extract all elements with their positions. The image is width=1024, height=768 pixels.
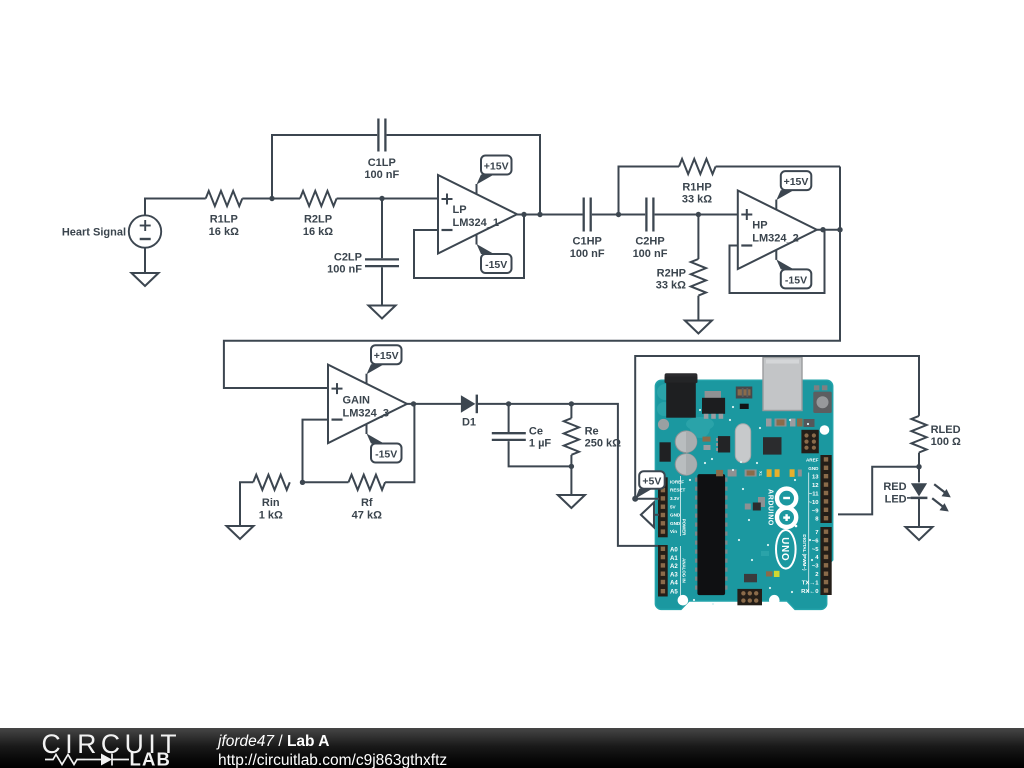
ARDUINO logo infinity — [777, 489, 797, 528]
footer title text — [218, 733, 329, 751]
inner pcb tint blobs — [658, 419, 669, 430]
node H — [569, 401, 574, 406]
electrolytic capacitors — [675, 431, 697, 453]
capacitor C2LP — [327, 199, 399, 306]
power flag +15V of U2 — [776, 171, 811, 210]
ground below Re — [558, 495, 585, 508]
node A — [269, 196, 274, 201]
svg-text:R2LP: R2LP — [304, 214, 332, 226]
voltage regulator — [705, 391, 721, 398]
resistor R1LP — [206, 191, 243, 238]
bottom mounting holes — [678, 595, 689, 606]
wire Arduino pin 8 to LED node — [838, 467, 919, 515]
svg-text:Rin: Rin — [262, 497, 280, 509]
QFP usb chip — [763, 437, 782, 454]
svg-text:-15V: -15V — [485, 259, 507, 271]
power flag -15V of U1 — [477, 234, 512, 273]
SOIC chip — [718, 436, 730, 452]
svg-text:GAIN: GAIN — [343, 395, 371, 407]
svg-text:47 kΩ: 47 kΩ — [352, 510, 382, 522]
wire node E to Rf — [303, 481, 349, 483]
capacitor C1LP — [364, 119, 399, 182]
node F — [411, 401, 416, 406]
ground below C2LP — [369, 306, 396, 319]
wire R1LP to node A — [242, 198, 300, 200]
power flag -15V of U2 — [776, 250, 811, 289]
wire GAIN output to D1 — [407, 403, 461, 405]
power flag -15V of U3 — [367, 424, 402, 463]
resistor R1HP — [679, 159, 716, 206]
reset button — [814, 385, 820, 390]
ground below Rin — [227, 526, 254, 539]
wire HP output long loop to GAIN + input — [224, 167, 840, 389]
LED emission arrows — [934, 484, 944, 492]
capacitor C2HP — [633, 198, 668, 260]
svg-text:HP: HP — [752, 220, 767, 232]
wire R1HP to HP output rail — [716, 166, 840, 168]
UNO oval logo — [776, 530, 796, 569]
wire C1LP to LP output vertical — [387, 135, 540, 215]
power flag +15V of U3 — [367, 345, 402, 384]
capacitor C1HP — [570, 198, 605, 260]
USB connector — [763, 357, 802, 410]
wire C1HP to C2HP — [592, 214, 645, 216]
svg-text:R1LP: R1LP — [210, 214, 238, 226]
DC power jack — [665, 373, 698, 383]
silkscreen labels left — [670, 479, 686, 534]
node LP out — [521, 212, 526, 217]
resonator — [736, 387, 753, 399]
wire node A up and across C1LP feedback — [272, 135, 377, 199]
svg-text:-15V: -15V — [375, 449, 397, 461]
left header ANALOG — [658, 545, 668, 597]
node LP out 2 — [537, 212, 542, 217]
svg-text:16 kΩ: 16 kΩ — [303, 226, 333, 238]
ON led — [774, 571, 780, 577]
svg-text:100 nF: 100 nF — [633, 248, 668, 260]
footer url text — [218, 752, 447, 768]
svg-text:100 nF: 100 nF — [327, 264, 362, 276]
resistor R2HP — [656, 215, 706, 321]
wire GAIN - input to node E — [303, 420, 329, 483]
LED D2 RED — [883, 481, 950, 527]
silkscreen separator lines — [680, 476, 682, 536]
ground below source — [132, 273, 159, 286]
svg-text:+15V: +15V — [784, 176, 809, 188]
power flag +5V — [632, 471, 665, 502]
svg-text:C2HP: C2HP — [635, 236, 664, 248]
right header digital top — [820, 455, 831, 523]
resistor R2LP — [300, 191, 337, 238]
tiny vias — [689, 406, 813, 605]
node I — [569, 464, 574, 469]
svg-text:+5V: +5V — [642, 476, 661, 488]
svg-text:LED: LED — [885, 494, 907, 506]
node HP out 2 — [837, 227, 842, 232]
silkscreen labels right — [806, 458, 819, 471]
ICSP2 header — [801, 430, 818, 454]
svg-text:C1HP: C1HP — [573, 236, 602, 248]
wire source bottom to ground — [144, 248, 146, 273]
wire Rf up to GAIN output — [385, 404, 414, 482]
small passives row — [745, 470, 757, 477]
op-amp U3 GAIN LM324_3 — [328, 365, 407, 444]
wire HP feedback loop — [730, 230, 825, 293]
wire node C up to R1HP — [619, 167, 680, 215]
wire +5V rail to RLED — [635, 356, 919, 499]
wire HP output — [817, 229, 840, 231]
svg-text:-15V: -15V — [785, 274, 807, 286]
crystal — [735, 424, 750, 463]
svg-text:RED: RED — [883, 481, 906, 493]
wire D1 to Ce Re and right — [478, 404, 658, 546]
ICSP header — [737, 589, 762, 605]
svg-text:100 nF: 100 nF — [364, 169, 399, 181]
node D — [696, 212, 701, 217]
svg-text:Heart Signal: Heart Signal — [62, 227, 126, 239]
node HP out — [820, 227, 825, 232]
node C — [616, 212, 621, 217]
wire R2LP to op-amp + input — [337, 198, 438, 200]
svg-text:Re: Re — [585, 425, 599, 437]
power flag +15V of U1 — [477, 156, 512, 195]
svg-text:LP: LP — [453, 204, 467, 216]
resistor Rf — [349, 475, 386, 522]
svg-text:R1HP: R1HP — [682, 181, 711, 193]
svg-text:Ce: Ce — [529, 425, 543, 437]
wire LP output — [517, 214, 583, 216]
svg-text:33 kΩ: 33 kΩ — [656, 280, 686, 292]
ground flag at Arduino GND pin — [641, 502, 659, 527]
resistor Rin — [253, 475, 290, 522]
ground below R2HP — [685, 321, 712, 334]
svg-text:RLED: RLED — [931, 424, 961, 436]
svg-text:33 kΩ: 33 kΩ — [682, 194, 712, 206]
svg-text:LM324_3: LM324_3 — [343, 408, 389, 420]
svg-text:LM324_2: LM324_2 — [752, 233, 798, 245]
node G — [506, 401, 511, 406]
resistor RLED — [911, 416, 961, 483]
svg-text:C1LP: C1LP — [368, 157, 396, 169]
node E — [300, 480, 305, 485]
svg-text:R2HP: R2HP — [657, 267, 686, 279]
capacitor Ce — [492, 404, 572, 467]
right header digital bottom — [820, 527, 831, 595]
yellow LEDs TX RX — [767, 469, 772, 477]
op-amp U1 LP LM324_1 — [438, 175, 517, 254]
footer bar — [0, 728, 1024, 768]
ground below LED — [906, 527, 933, 540]
node J — [916, 464, 921, 469]
chip left — [660, 442, 671, 461]
svg-text:C2LP: C2LP — [334, 251, 362, 263]
node B — [379, 196, 384, 201]
svg-text:LAB: LAB — [130, 749, 172, 768]
wire LP feedback loop — [414, 215, 524, 279]
wire Rin left to ground — [240, 482, 253, 526]
SMD passives near AREF — [766, 419, 772, 427]
left header POWER — [658, 477, 668, 537]
svg-text:+15V: +15V — [374, 350, 399, 362]
svg-text:16 kΩ: 16 kΩ — [209, 226, 239, 238]
svg-text:250 kΩ: 250 kΩ — [585, 438, 622, 450]
diode D1 — [461, 395, 477, 429]
voltage source V1 Heart Signal — [62, 215, 161, 247]
board PCB — [655, 380, 832, 609]
svg-text:1 kΩ: 1 kΩ — [259, 510, 283, 522]
wire C2HP to HP + input — [655, 214, 738, 216]
svg-text:D1: D1 — [462, 416, 476, 428]
ATmega328 DIP — [695, 474, 728, 595]
wire source top to R1LP — [145, 199, 206, 216]
svg-text:1 µF: 1 µF — [529, 438, 552, 450]
svg-text:Rf: Rf — [361, 497, 373, 509]
svg-text:100 Ω: 100 Ω — [931, 436, 961, 448]
CircuitLab logo — [0, 728, 200, 768]
op-amp U2 HP LM324_2 — [738, 191, 817, 270]
svg-text:+15V: +15V — [484, 161, 509, 173]
svg-text:100 nF: 100 nF — [570, 248, 605, 260]
svg-text:LM324_1: LM324_1 — [453, 217, 499, 229]
resistor Re — [564, 404, 621, 495]
hole top right — [820, 425, 830, 435]
